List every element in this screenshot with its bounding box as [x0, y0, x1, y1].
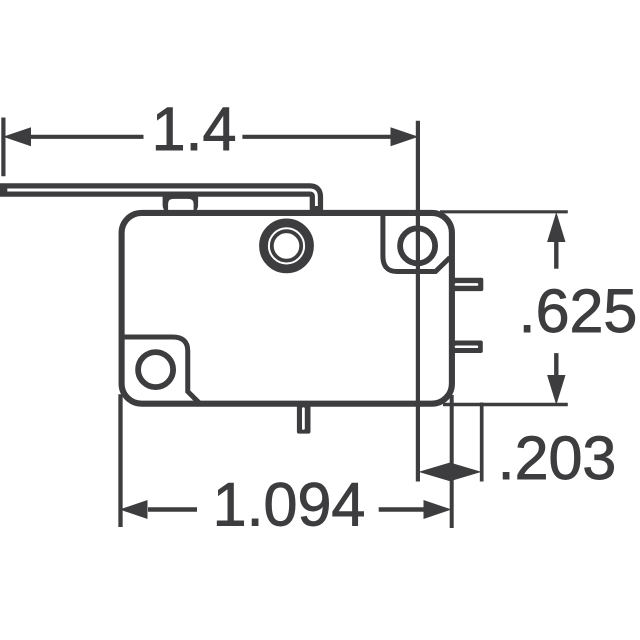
terminal T2 (lower right) [450, 341, 483, 354]
arrowhead .625 down [547, 375, 565, 405]
dimension text .203 [498, 424, 617, 492]
extension line bottom-right (body right edge, for 1.094) [450, 395, 454, 528]
arrowhead .203 left (points left) [419, 463, 451, 482]
switch body outline [122, 213, 452, 404]
mounting hole top-right [400, 228, 435, 263]
boss outline around bottom-left mounting hole [120, 337, 200, 404]
arrowhead 1.4 right [391, 127, 419, 146]
arrowhead 1.094 right [424, 500, 452, 519]
dimension text 1.4 [152, 95, 237, 163]
extension line left (lever tip, for 1.4) [1, 118, 5, 177]
terminal T2 white inner line [456, 345, 477, 348]
dimension line .625 lower shaft [554, 353, 558, 377]
dimension line .625 upper shaft [554, 241, 558, 269]
svg-text:1.4: 1.4 [152, 95, 237, 163]
dimension line 1.094 left segment [148, 507, 197, 511]
dimension text .625 [519, 277, 638, 345]
svg-text:.203: .203 [498, 424, 617, 492]
extension line bottom (.625 bottom, body bottom edge) [443, 403, 568, 407]
dimension line 1.4 left segment [28, 135, 144, 139]
svg-text:1.094: 1.094 [213, 471, 366, 539]
arrowhead 1.4 left [3, 127, 31, 146]
arrowhead .203 right (points right) [450, 463, 482, 482]
dimension text 1.094 [213, 471, 366, 539]
plunger button (double circle) [264, 223, 310, 269]
extension line bottom-left (body left edge, for 1.094) [118, 394, 122, 527]
lever arm inner white line [7, 190, 316, 206]
dimension line 1.4 right segment [242, 135, 392, 139]
svg-text:.625: .625 [519, 277, 638, 345]
terminal T1 white inner line [456, 283, 477, 286]
extension line top (.625 top, body top edge) [440, 210, 568, 213]
terminal T3 (bottom) [297, 400, 311, 434]
plunger boot bump on body top (dark) [163, 188, 199, 214]
boss outline around top-right mounting hole [383, 211, 450, 272]
mounting hole bottom-left [138, 352, 173, 387]
lever arm (hinge lever, outline) [0, 190, 316, 210]
plunger boot bump white interior [168, 199, 194, 210]
arrowhead 1.094 left [120, 500, 148, 519]
arrowhead .625 up [547, 212, 565, 242]
terminal T3 white inner line [302, 409, 305, 429]
dimension line 1.094 right segment [379, 507, 424, 511]
terminal T1 (upper right, common) [450, 278, 483, 291]
extension line right of terminals (for .203) [480, 403, 484, 482]
extension line right (hole center, for 1.4 and .203) [416, 121, 420, 482]
